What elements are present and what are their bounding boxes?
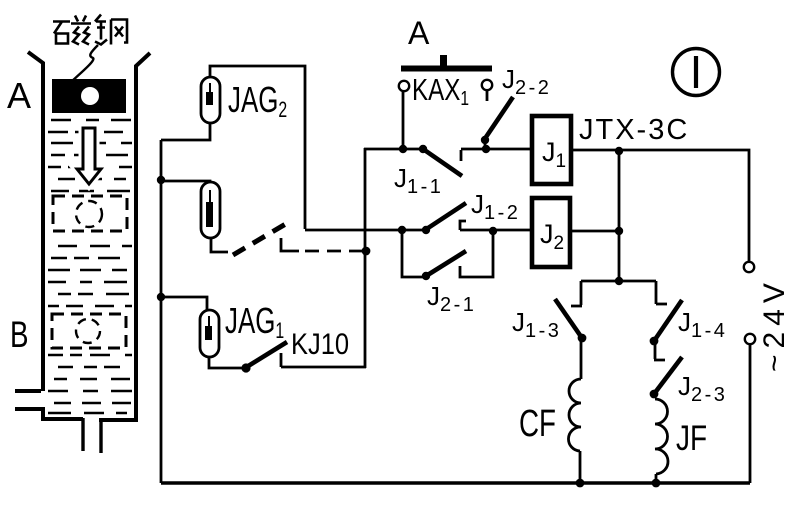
J2-2 fixed stub bbox=[486, 90, 489, 101]
wire: bus to JAG1 bbox=[161, 297, 207, 310]
contact J1-1 fixed stub bbox=[460, 150, 463, 161]
KJ10 fixed hook + wire to riser bbox=[281, 353, 366, 367]
junction: left bus / reed 2 branch bbox=[157, 176, 165, 184]
contact J1-2 fixed hook bbox=[460, 221, 466, 230]
wire to CF bbox=[580, 338, 583, 379]
wire: row y230 bbox=[305, 229, 532, 232]
float switch A (dashed box + circle) bbox=[53, 196, 127, 231]
svg-text:J2-1: J2-1 bbox=[427, 281, 476, 316]
wire: JAG1 bottom bbox=[209, 357, 242, 368]
wire: main row y149 bbox=[364, 148, 532, 151]
junction: JF / bottom rail bbox=[652, 479, 661, 488]
junction: dashed contact / riser bbox=[362, 247, 371, 256]
wire J1 out to right bbox=[571, 150, 749, 262]
wire: bus to middle reed bbox=[161, 181, 210, 182]
pushbutton KAX1 bar bbox=[401, 66, 492, 72]
wire: JAG2 bottom to bus bbox=[161, 123, 210, 140]
junction: J2-2 / main row bbox=[482, 145, 490, 153]
svg-text:J2-3: J2-3 bbox=[678, 371, 727, 406]
down arrow (hollow) bbox=[77, 128, 101, 184]
svg-text:B: B bbox=[10, 313, 29, 355]
svg-text:A: A bbox=[7, 75, 31, 116]
switch J1-1 arm bbox=[423, 149, 462, 176]
wire KAX1 to row bbox=[402, 91, 405, 148]
KAX1 terminal circle bbox=[399, 81, 409, 91]
svg-text:J1-3: J1-3 bbox=[512, 307, 561, 342]
bypass J2-1 bbox=[402, 230, 424, 277]
wire: middle reed bottom stub bbox=[211, 238, 228, 252]
magnet steel block bbox=[52, 79, 126, 113]
junction: KAX1 / main row bbox=[399, 145, 407, 153]
label 磁钢 leader bbox=[72, 45, 98, 81]
tank bottom drain pipes bbox=[83, 418, 101, 453]
svg-text:KJ10: KJ10 bbox=[291, 327, 349, 360]
svg-text:JF: JF bbox=[676, 418, 707, 458]
junction: J1 output / mid riser bbox=[615, 147, 623, 155]
junction: J2 output / mid riser bbox=[615, 227, 623, 235]
wire: JAG2 top loop bbox=[210, 66, 305, 229]
tank left wall bbox=[28, 52, 43, 391]
svg-text:J1-1: J1-1 bbox=[394, 163, 443, 198]
terminal circle top right bbox=[744, 262, 754, 272]
switch J1-4 arm bbox=[654, 300, 682, 341]
dashed contact arm bbox=[233, 222, 289, 255]
junction: branch top row / mid riser bbox=[615, 277, 623, 285]
reed switch middle bbox=[201, 182, 220, 238]
switch J2-1 arm bbox=[426, 251, 466, 276]
reed switch JAG1 bbox=[200, 310, 219, 357]
wire: left bus bbox=[160, 140, 163, 483]
switch J2-3 arm bbox=[654, 357, 682, 394]
contact J1-4 fixed foot bbox=[656, 303, 667, 306]
svg-text:~24V: ~24V bbox=[758, 277, 787, 372]
junction: left bus / JAG1 branch bbox=[157, 293, 165, 301]
wire J1-4 to J2-3 bbox=[654, 341, 665, 360]
junction: J2-1 return / row y230 bbox=[489, 227, 497, 235]
coil JF bbox=[655, 399, 668, 474]
switch J2-2 arm bbox=[484, 97, 513, 140]
J2-2 terminal circle bbox=[482, 80, 492, 90]
junction: J2-1 bypass / row y230 bbox=[398, 226, 406, 234]
switch J1-3 arm bbox=[555, 299, 582, 338]
switch J1-2 arm bbox=[425, 203, 466, 230]
sheet number circle 1 bbox=[673, 49, 720, 96]
tank left inlet bbox=[15, 391, 83, 419]
hand drawn 磁钢 bbox=[53, 15, 127, 45]
tank water dashes bbox=[48, 120, 132, 413]
wire: mid riser x619 bbox=[618, 150, 621, 281]
svg-text:JAG1: JAG1 bbox=[225, 301, 284, 344]
dashed contact fixed hook bbox=[281, 238, 299, 251]
svg-text:JTX-3C: JTX-3C bbox=[579, 114, 689, 146]
junction: CF / bottom rail bbox=[576, 479, 585, 488]
wire: riser x365 bbox=[364, 148, 367, 368]
wire: bottom rail bbox=[161, 481, 750, 485]
tank right wall bbox=[99, 53, 150, 420]
svg-text:J1-2: J1-2 bbox=[471, 189, 520, 224]
wire: branch top row y281 bbox=[581, 280, 656, 283]
svg-text:CF: CF bbox=[519, 403, 556, 445]
contact J2-1 fixed hook bbox=[460, 231, 493, 277]
reed switch JAG2 bbox=[201, 77, 220, 123]
dashed wire to node bbox=[305, 250, 362, 253]
relay coil J1 box bbox=[532, 116, 571, 184]
float switch B (dashed box + circle) bbox=[52, 314, 126, 348]
wire right rail bbox=[749, 344, 752, 483]
relay coil J2 box bbox=[532, 198, 570, 267]
terminal circle bottom right bbox=[745, 334, 755, 344]
contact J1-3 fixed foot bbox=[571, 305, 582, 308]
svg-text:KAX1: KAX1 bbox=[412, 72, 469, 109]
svg-text:JAG2: JAG2 bbox=[228, 80, 287, 123]
wire J2 out bbox=[570, 230, 619, 233]
svg-text:J1-4: J1-4 bbox=[678, 307, 727, 342]
switch KJ10 arm bbox=[245, 342, 287, 368]
svg-text:J2-2: J2-2 bbox=[502, 64, 551, 99]
coil CF bbox=[568, 379, 581, 451]
svg-text:A: A bbox=[408, 15, 430, 51]
